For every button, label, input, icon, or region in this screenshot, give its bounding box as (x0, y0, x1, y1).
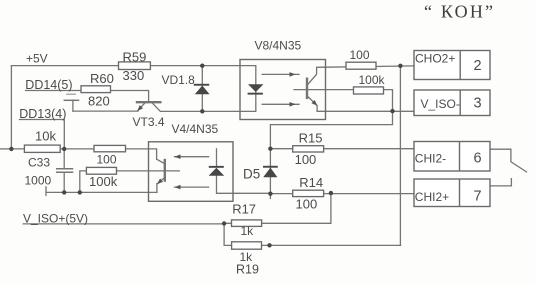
svg-text:3: 3 (474, 96, 482, 112)
svg-text:100k: 100k (359, 73, 386, 87)
svg-text:100: 100 (295, 152, 317, 167)
svg-text:R17: R17 (232, 202, 256, 217)
svg-text:2: 2 (474, 58, 482, 74)
svg-text:V8/4N35: V8/4N35 (255, 38, 302, 52)
svg-text:CHO2+: CHO2+ (415, 52, 455, 66)
svg-text:VT3.4: VT3.4 (133, 115, 165, 129)
svg-text:10k: 10k (35, 128, 56, 143)
svg-text:100: 100 (350, 48, 370, 62)
svg-text:V4/4N35: V4/4N35 (172, 122, 219, 136)
svg-text:R59: R59 (123, 49, 147, 64)
svg-text:100: 100 (97, 152, 117, 166)
svg-text:1000: 1000 (25, 174, 52, 188)
svg-text:CHI2-: CHI2- (415, 151, 446, 165)
svg-text:6: 6 (474, 150, 482, 166)
svg-text:1k: 1k (241, 224, 255, 238)
svg-text:V_ISO+(5V): V_ISO+(5V) (23, 212, 88, 226)
svg-text:R19: R19 (236, 263, 259, 277)
svg-text:DD14(5): DD14(5) (25, 78, 72, 92)
svg-text:D5: D5 (243, 166, 260, 181)
svg-text:“ КОН”: “ КОН” (424, 2, 495, 22)
svg-text:7: 7 (474, 189, 482, 205)
svg-text:C33: C33 (28, 155, 50, 169)
svg-text:820: 820 (88, 93, 110, 108)
svg-text:R60: R60 (90, 71, 114, 86)
svg-text:VD1.8: VD1.8 (162, 73, 196, 87)
svg-text:R15: R15 (299, 130, 323, 145)
svg-text:V_ISO-: V_ISO- (421, 97, 460, 111)
svg-text:R14: R14 (299, 175, 323, 190)
svg-text:CHI2+: CHI2+ (415, 190, 449, 204)
svg-text:100: 100 (296, 196, 318, 211)
svg-text:100k: 100k (89, 174, 118, 189)
svg-text:330: 330 (123, 68, 145, 83)
svg-text:+5V: +5V (26, 51, 48, 65)
svg-text:DD13(4): DD13(4) (19, 107, 66, 121)
